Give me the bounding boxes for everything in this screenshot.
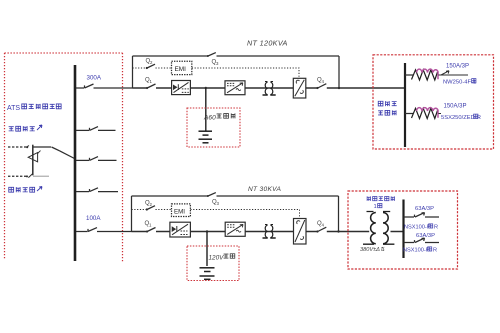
breaker: spare feeder 1 <box>76 127 116 131</box>
wire: mains input 1 (dashed) <box>8 146 27 148</box>
wire: EMI to static switch (dotted) <box>192 68 299 78</box>
svg-text:R: R <box>434 225 438 231</box>
wire: secondary to output bus <box>391 231 404 233</box>
wire: UPS1 input riser <box>132 56 134 88</box>
svg-text:3: 3 <box>217 201 220 206</box>
wire: inverter to transformer <box>245 87 293 89</box>
inverter U4 <box>225 222 245 236</box>
wire: static switch to Q4' <box>306 231 317 233</box>
svg-text:2: 2 <box>150 202 153 207</box>
wire: Q1 to rectifier <box>156 87 172 89</box>
svg-text:NW250-4F-1: NW250-4F-1 <box>443 80 476 86</box>
wire: UPS1 bypass output riser <box>338 56 340 88</box>
label: output cabinet <box>378 101 397 115</box>
label: F2 type <box>403 247 437 254</box>
wire: UPS1 main input <box>133 87 147 89</box>
svg-text:1: 1 <box>150 79 153 84</box>
label: breaker L2 type <box>441 114 481 121</box>
wire: UPS2 maintenance bypass top <box>132 195 339 197</box>
wire: rectifier to inverter <box>190 87 225 89</box>
svg-text:63A/3P: 63A/3P <box>415 206 434 212</box>
breaker F1 <box>404 213 440 217</box>
wire: UPS2 static bypass (dotted) <box>132 209 147 211</box>
svg-text:A60: A60 <box>203 115 216 122</box>
node: battery tap UPS1 <box>205 87 207 89</box>
bus: output busbar <box>404 63 406 147</box>
bus: main LV busbar <box>74 65 77 261</box>
static switch S1 <box>293 78 306 98</box>
label: isolation transformer <box>367 196 394 210</box>
breaker F2 <box>404 238 440 242</box>
svg-text:1: 1 <box>149 223 152 228</box>
wire: battery riser UPS2 <box>206 232 208 267</box>
rectifier U1 <box>172 81 191 95</box>
transformer T3 <box>363 212 394 245</box>
rectifier U3 <box>170 222 191 237</box>
switch Q1 (rectifier input) <box>146 87 148 89</box>
svg-text:4: 4 <box>322 223 325 228</box>
bus: transformer output busbar <box>402 200 404 259</box>
wire: UPS2 EMI to static switch (dotted) <box>190 210 299 219</box>
svg-text:R: R <box>433 248 437 254</box>
EMI filter UPS2 <box>172 204 191 217</box>
wire: UPS2 output to transformer cabinet <box>327 231 369 233</box>
switch Q2' (UPS2 bypass input) <box>146 208 148 210</box>
switch Q1' (UPS2 rectifier input) <box>146 230 148 232</box>
inline transformer T2 <box>263 225 276 239</box>
svg-text:NSX100-F: NSX100-F <box>404 225 431 231</box>
breaker: 100A feed to UPS2 <box>76 228 132 232</box>
switch Q4 (output) <box>316 87 318 89</box>
inverter U2 <box>225 81 245 95</box>
wire: inverter to transformer UPS2 <box>245 231 293 233</box>
wire: ATS output to bus <box>33 147 75 159</box>
battery B1 <box>199 131 213 143</box>
label: breaker L1 type <box>443 79 476 86</box>
wire: UPS1 maintenance bypass top <box>133 55 340 57</box>
battery B2 <box>200 268 215 280</box>
svg-text:NT 120KVA: NT 120KVA <box>247 39 288 48</box>
output cabinet (red dashed) <box>373 55 494 149</box>
svg-text:3: 3 <box>216 61 219 66</box>
node: bypass junction UPS2 <box>337 230 339 232</box>
transformer cabinet (red dashed) <box>348 191 458 269</box>
inline transformer T1 <box>263 82 276 96</box>
breaker L1 (coil) <box>405 69 468 80</box>
svg-text:NT 30KVA: NT 30KVA <box>248 186 281 193</box>
label: ATS cabinet name <box>7 104 61 112</box>
wire: UPS2 input riser <box>131 196 133 232</box>
wire: UPS2 bypass to EMI (dotted) <box>156 209 172 211</box>
svg-text:380V±Δ⇅: 380V±Δ⇅ <box>360 246 385 253</box>
svg-text:100A: 100A <box>86 215 101 222</box>
wire: generator input 2 (dashed) <box>8 175 27 177</box>
switch Q2 (bypass input) <box>146 67 148 69</box>
svg-text:150A/3P: 150A/3P <box>444 104 467 110</box>
svg-text:120V: 120V <box>209 255 225 262</box>
wire: UPS1 static bypass (dotted) <box>133 67 147 69</box>
label: mains input <box>9 125 42 131</box>
ATS cabinet enclosure (red dashed, open bottom) <box>5 53 123 262</box>
wire: bypass to EMI (dotted) <box>156 67 172 69</box>
breaker L2 (coil) <box>405 108 441 119</box>
switch Q4' (UPS2 output) <box>316 230 318 232</box>
switch Q3' (UPS2 maintenance bypass) <box>207 195 209 197</box>
node: bypass junction UPS1 <box>338 87 340 89</box>
svg-text:4: 4 <box>322 79 325 84</box>
svg-text:150A/3P: 150A/3P <box>446 64 469 70</box>
svg-text:ATS: ATS <box>7 105 20 112</box>
svg-text:NSX100-F: NSX100-F <box>403 248 430 254</box>
label: battery bank UPS2 <box>209 254 235 262</box>
static switch S2 <box>294 219 307 245</box>
wire: Q1' to rectifier <box>156 231 170 233</box>
svg-text:EMI: EMI <box>174 208 185 215</box>
label: battery bank UPS1 <box>203 113 235 121</box>
label: generator input <box>9 187 42 193</box>
switch Q3 (maintenance bypass) <box>207 55 209 57</box>
wire: battery riser UPS1 <box>205 88 207 131</box>
battery cabinet UPS2 (red dashed) <box>187 246 239 281</box>
svg-text:2: 2 <box>150 60 153 65</box>
svg-text:EMI: EMI <box>175 66 187 73</box>
wire: UPS2 main input <box>132 231 147 233</box>
svg-text:1: 1 <box>374 204 377 210</box>
breaker: spare feeder 2 <box>76 157 117 161</box>
node: battery tap UPS2 <box>206 230 208 232</box>
battery cabinet UPS1 (red dashed) <box>187 108 240 147</box>
wire: UPS1 output to distribution <box>327 87 405 89</box>
label: F1 type <box>404 224 438 231</box>
wire: UPS2 bypass output riser <box>338 196 340 232</box>
ATS changeover switch <box>26 145 49 178</box>
svg-text:63A/3P: 63A/3P <box>416 233 435 239</box>
svg-text:300A: 300A <box>87 75 102 82</box>
breaker: 300A feed to UPS1 <box>76 84 133 88</box>
EMI filter UPS1 <box>172 61 192 74</box>
wire: static switch to Q4 <box>306 87 317 89</box>
breaker: spare feeder 3 <box>76 188 118 192</box>
wire: rectifier to inverter UPS2 <box>190 231 225 233</box>
